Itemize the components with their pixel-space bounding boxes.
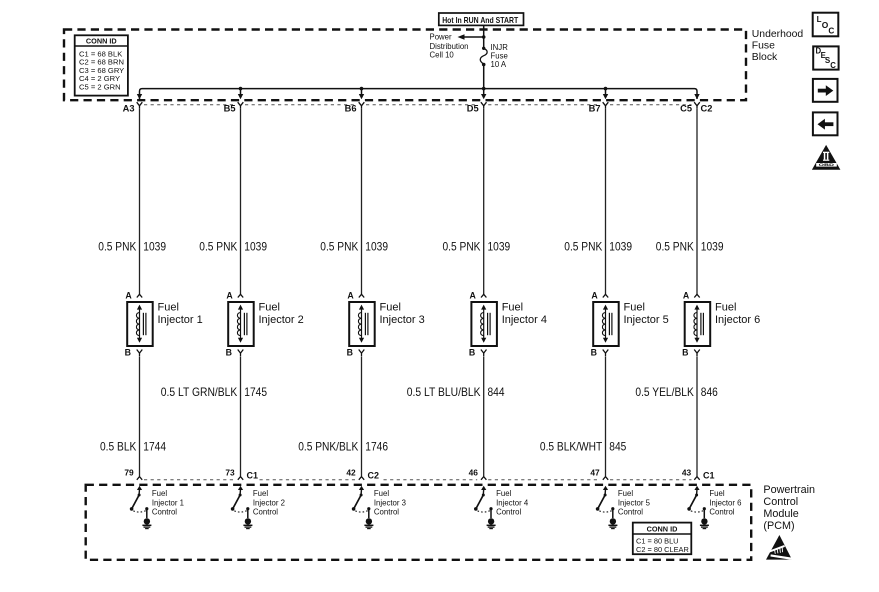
svg-text:Control: Control bbox=[763, 496, 798, 508]
svg-text:Injector 5: Injector 5 bbox=[618, 499, 651, 508]
svg-text:Control: Control bbox=[152, 507, 177, 516]
svg-text:73: 73 bbox=[225, 467, 235, 477]
svg-text:Injector 1: Injector 1 bbox=[152, 499, 184, 508]
svg-text:0.5 PNK: 0.5 PNK bbox=[656, 240, 694, 254]
svg-text:Hot In RUN And START: Hot In RUN And START bbox=[442, 15, 519, 25]
svg-text:B: B bbox=[226, 347, 232, 357]
svg-text:Fuel: Fuel bbox=[374, 489, 389, 498]
svg-text:Control: Control bbox=[496, 507, 521, 516]
svg-text:0.5 PNK: 0.5 PNK bbox=[320, 240, 358, 254]
svg-text:B: B bbox=[125, 347, 131, 357]
svg-text:A: A bbox=[347, 290, 354, 300]
svg-text:C: C bbox=[828, 27, 834, 36]
svg-text:Module: Module bbox=[763, 508, 798, 520]
svg-text:C2: C2 bbox=[368, 470, 380, 480]
svg-text:C2: C2 bbox=[701, 103, 713, 113]
svg-text:Injector 3: Injector 3 bbox=[374, 499, 406, 508]
svg-text:Fuel: Fuel bbox=[709, 489, 724, 498]
svg-text:1746: 1746 bbox=[365, 439, 388, 453]
svg-text:0.5 LT BLU/BLK: 0.5 LT BLU/BLK bbox=[407, 385, 481, 399]
svg-text:Control: Control bbox=[374, 507, 399, 516]
svg-text:C5 = 2 GRN: C5 = 2 GRN bbox=[79, 83, 121, 92]
svg-text:Injector 1: Injector 1 bbox=[158, 314, 203, 326]
svg-text:Injector 6: Injector 6 bbox=[715, 314, 760, 326]
svg-text:D5: D5 bbox=[467, 103, 479, 113]
svg-text:845: 845 bbox=[609, 439, 626, 453]
svg-text:A3: A3 bbox=[123, 103, 135, 113]
svg-text:Block: Block bbox=[752, 52, 778, 63]
svg-text:Control: Control bbox=[618, 507, 643, 516]
svg-text:CONN ID: CONN ID bbox=[86, 37, 117, 46]
svg-text:Control: Control bbox=[709, 507, 734, 516]
svg-text:C1: C1 bbox=[703, 470, 715, 480]
svg-text:Control: Control bbox=[253, 507, 278, 516]
svg-text:C: C bbox=[830, 61, 836, 70]
svg-text:A: A bbox=[683, 290, 690, 300]
svg-text:0.5 PNK: 0.5 PNK bbox=[199, 240, 237, 254]
svg-text:C1: C1 bbox=[247, 470, 259, 480]
svg-text:0.5 PNK: 0.5 PNK bbox=[98, 240, 136, 254]
svg-text:B: B bbox=[347, 347, 353, 357]
svg-text:A: A bbox=[125, 290, 132, 300]
svg-text:C2 = 80 CLEAR: C2 = 80 CLEAR bbox=[636, 545, 689, 554]
svg-text:1039: 1039 bbox=[244, 240, 267, 254]
svg-text:Fuel: Fuel bbox=[380, 302, 401, 314]
svg-text:1039: 1039 bbox=[143, 240, 166, 254]
svg-text:A: A bbox=[470, 290, 477, 300]
svg-text:0.5 PNK/BLK: 0.5 PNK/BLK bbox=[298, 439, 358, 453]
svg-text:Fuel: Fuel bbox=[502, 302, 523, 314]
svg-text:C5: C5 bbox=[680, 103, 692, 113]
svg-text:B7: B7 bbox=[589, 103, 601, 113]
svg-text:1039: 1039 bbox=[701, 240, 724, 254]
svg-text:0.5 LT GRN/BLK: 0.5 LT GRN/BLK bbox=[161, 385, 238, 399]
svg-text:42: 42 bbox=[346, 467, 356, 477]
svg-text:Injector 4: Injector 4 bbox=[496, 499, 529, 508]
svg-text:(PCM): (PCM) bbox=[763, 520, 794, 532]
svg-text:Powertrain: Powertrain bbox=[763, 484, 815, 496]
svg-text:A: A bbox=[226, 290, 233, 300]
svg-text:1039: 1039 bbox=[365, 240, 388, 254]
svg-text:844: 844 bbox=[488, 385, 505, 399]
svg-text:1039: 1039 bbox=[609, 240, 632, 254]
svg-text:0.5 BLK: 0.5 BLK bbox=[100, 439, 136, 453]
svg-text:Cell 10: Cell 10 bbox=[430, 50, 455, 59]
svg-text:B: B bbox=[591, 347, 597, 357]
svg-text:10 A: 10 A bbox=[491, 60, 507, 69]
svg-text:CONN ID: CONN ID bbox=[647, 525, 678, 534]
svg-text:B: B bbox=[682, 347, 688, 357]
svg-text:1745: 1745 bbox=[244, 385, 267, 399]
svg-text:Injector 2: Injector 2 bbox=[253, 499, 285, 508]
svg-text:43: 43 bbox=[682, 467, 692, 477]
svg-text:Fuse: Fuse bbox=[752, 40, 775, 51]
svg-text:Fuel: Fuel bbox=[259, 302, 280, 314]
svg-text:Power: Power bbox=[430, 33, 453, 42]
svg-text:Fuel: Fuel bbox=[624, 302, 645, 314]
svg-text:46: 46 bbox=[469, 467, 479, 477]
svg-text:Injector 2: Injector 2 bbox=[259, 314, 304, 326]
svg-text:Fuel: Fuel bbox=[618, 489, 633, 498]
svg-text:Fuel: Fuel bbox=[152, 489, 167, 498]
svg-text:Fuel: Fuel bbox=[158, 302, 179, 314]
svg-text:0.5 PNK: 0.5 PNK bbox=[443, 240, 481, 254]
svg-text:846: 846 bbox=[701, 385, 718, 399]
svg-text:79: 79 bbox=[124, 467, 134, 477]
svg-text:B: B bbox=[469, 347, 475, 357]
svg-text:INJR: INJR bbox=[491, 43, 509, 52]
svg-text:47: 47 bbox=[590, 467, 600, 477]
svg-text:Injector 4: Injector 4 bbox=[502, 314, 547, 326]
svg-text:Injector 5: Injector 5 bbox=[624, 314, 669, 326]
svg-text:1744: 1744 bbox=[143, 439, 166, 453]
svg-text:1039: 1039 bbox=[488, 240, 511, 254]
svg-text:0.5 BLK/WHT: 0.5 BLK/WHT bbox=[540, 439, 603, 453]
svg-text:Fuel: Fuel bbox=[496, 489, 511, 498]
svg-text:Fuel: Fuel bbox=[715, 302, 736, 314]
svg-text:Fuel: Fuel bbox=[253, 489, 268, 498]
svg-text:B6: B6 bbox=[345, 103, 357, 113]
svg-text:Injector 6: Injector 6 bbox=[709, 499, 741, 508]
svg-text:0.5 PNK: 0.5 PNK bbox=[564, 240, 602, 254]
svg-text:OBD: OBD bbox=[819, 162, 835, 167]
svg-text:A: A bbox=[591, 290, 598, 300]
svg-text:Injector 3: Injector 3 bbox=[380, 314, 425, 326]
svg-text:0.5 YEL/BLK: 0.5 YEL/BLK bbox=[635, 385, 693, 399]
svg-text:Underhood: Underhood bbox=[752, 29, 804, 40]
svg-text:B5: B5 bbox=[224, 103, 236, 113]
